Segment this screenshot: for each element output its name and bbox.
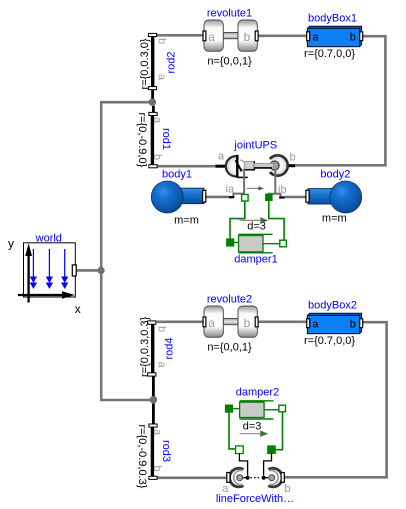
svg-text:r={0.7,0,0}: r={0.7,0,0}: [304, 48, 355, 60]
world gravity arrow 1: [32, 249, 34, 277]
wire jointUPS.bearing to damper1.flange_a (green): [230, 201, 245, 239]
wire jointUPS.frame_ib to body2: [285, 196, 306, 199]
jointUPS stem to frame_ib: [268, 169, 275, 194]
svg-text:y: y: [8, 237, 14, 251]
rod4 fixedTranslation: [139, 316, 175, 396]
world gravity arrow 3: [64, 249, 66, 277]
wire left bus vertical with corners: [101, 102, 151, 400]
wire damper2.flange_a to lineForce.flange_a (green): [229, 412, 236, 449]
damper1: [227, 217, 287, 265]
svg-text:n={0,0,1}: n={0,0,1}: [207, 55, 252, 67]
lineForceWithTwoMasses: [216, 446, 294, 505]
svg-text:r={0,-0.9,0.3}: r={0,-0.9,0.3}: [136, 425, 148, 489]
jointUPS frame_a black stub: [216, 165, 227, 168]
jointUPS frame_ib connector: [279, 196, 284, 198]
jointUPS bearing connector (open green square): [242, 195, 249, 202]
svg-text:r={0,-0.9,0}: r={0,-0.9,0}: [136, 113, 148, 168]
lineForce stem a: [239, 454, 247, 476]
damper2 flange_b: [279, 405, 286, 412]
damper1 cylinder+piston: [234, 242, 239, 244]
svg-text:b: b: [350, 319, 356, 331]
svg-text:b: b: [151, 466, 163, 472]
bodyBox1: [304, 13, 363, 61]
svg-text:rod2: rod2: [166, 51, 178, 73]
jointUPS: [216, 140, 296, 201]
svg-text:a: a: [208, 316, 215, 330]
svg-text:bodyBox2: bodyBox2: [308, 300, 357, 312]
jointUPS stem to frame_ia: [233, 170, 244, 197]
svg-text:b: b: [155, 326, 167, 332]
lineForce connector a: [227, 473, 230, 483]
lineForce dotted rope: [251, 477, 262, 479]
body2: [306, 168, 362, 224]
svg-text:a: a: [151, 429, 163, 436]
damper2 arrow: [240, 433, 260, 435]
svg-text:r={0,0.3,0.3}: r={0,0.3,0.3}: [139, 316, 151, 377]
rod1 fixedTranslation: [136, 106, 172, 168]
svg-text:a: a: [151, 117, 163, 124]
lineForce masses: [246, 476, 250, 480]
svg-text:lineForceWith…: lineForceWith…: [216, 493, 294, 505]
svg-text:m=m: m=m: [174, 215, 199, 227]
world W: [8, 233, 81, 317]
wire revolute1.b to bodyBox1.a: [258, 34, 308, 37]
bodyBox2: [304, 300, 363, 348]
svg-text:a: a: [155, 74, 167, 81]
wire jointUPS.axis to damper1.flange_b (green): [269, 201, 284, 241]
wire rod1.b to jointUPS.a: [157, 165, 218, 168]
revolute1 R: [203, 8, 258, 68]
svg-text:b: b: [155, 38, 167, 44]
world gravity arrow 2: [48, 249, 50, 277]
wire bodyBox2.b to lineForceWithTwoMasses.b: [284, 322, 387, 477]
damper1 arrow: [239, 219, 260, 221]
damper1 flange_a: [227, 239, 234, 246]
svg-text:revolute1: revolute1: [207, 8, 252, 20]
node junction rod3/rod4: [150, 396, 158, 404]
lineForce flange_b (filled green square): [268, 446, 276, 454]
svg-text:m=m: m=m: [322, 212, 347, 224]
svg-text:b: b: [290, 152, 296, 164]
lineForce ring a: [230, 468, 244, 487]
svg-text:jointUPS: jointUPS: [233, 140, 277, 152]
node junction world/bus: [98, 267, 105, 274]
lineForce ring b: [268, 468, 282, 487]
damper2 flange_a: [225, 405, 232, 412]
svg-text:b: b: [151, 154, 163, 160]
jointUPS axis direction arrow: [247, 187, 260, 189]
svg-text:n={0,0,1}: n={0,0,1}: [207, 341, 252, 353]
wire world to left bus: [77, 269, 101, 272]
svg-text:a: a: [312, 32, 319, 44]
wire body1 to jointUPS.frame_ia: [206, 196, 229, 199]
svg-text:b: b: [244, 316, 251, 330]
node junction rod1/rod2: [149, 98, 157, 106]
lineForce connector b: [281, 473, 284, 483]
svg-text:ia: ia: [226, 184, 235, 196]
rod2 fixedTranslation: [139, 33, 178, 98]
world y-axis: [27, 254, 29, 303]
svg-text:a: a: [155, 362, 167, 369]
svg-text:b: b: [244, 30, 251, 44]
svg-text:d=3: d=3: [243, 420, 262, 432]
svg-text:b: b: [350, 32, 356, 44]
svg-text:rod1: rod1: [160, 128, 172, 150]
svg-text:body2: body2: [320, 168, 350, 180]
damper1 flange_b: [280, 240, 287, 247]
jointUPS prismatic box: [244, 161, 254, 169]
svg-text:damper2: damper2: [236, 387, 279, 399]
world frame_b connector: [72, 265, 76, 276]
wire rod2.b to revolute1.a: [157, 34, 204, 37]
rod3 fixedTranslation: [136, 404, 172, 489]
svg-text:r={0.7,0,0}: r={0.7,0,0}: [304, 335, 355, 347]
svg-text:rod3: rod3: [160, 440, 172, 462]
jointUPS left sphere (universal): [226, 156, 246, 176]
wire rod3.b to lineForceWithTwoMasses.a: [158, 476, 228, 479]
damper2: [225, 387, 285, 437]
svg-text:ib: ib: [278, 184, 287, 196]
world box: [24, 243, 76, 297]
svg-text:revolute2: revolute2: [207, 294, 252, 306]
lineForce inner circles: [237, 475, 243, 481]
svg-text:rod4: rod4: [163, 337, 175, 359]
svg-text:body1: body1: [162, 169, 192, 181]
world x-axis: [18, 294, 63, 296]
wire bodyBox1.b to jointUPS.b: [295, 36, 385, 165]
lineForce stem b: [264, 454, 272, 476]
svg-text:a: a: [218, 151, 225, 163]
jointUPS prismatic rod: [254, 163, 274, 168]
svg-text:a: a: [312, 319, 319, 331]
damper2 cylinder+piston: [233, 408, 240, 410]
svg-text:damper1: damper1: [234, 254, 277, 266]
svg-text:r={0,0.3,0}: r={0,0.3,0}: [139, 38, 151, 89]
jointUPS axis connector (filled green square): [266, 194, 273, 201]
jointUPS right sphere (spherical): [267, 155, 287, 175]
svg-text:a: a: [208, 30, 215, 44]
jointUPS frame_b black stub: [285, 164, 295, 167]
lineForce flange_a (open green square): [236, 446, 244, 454]
revolute2 R: [203, 294, 258, 354]
svg-text:bodyBox1: bodyBox1: [308, 13, 357, 25]
body1: [151, 169, 206, 227]
wire damper2.flange_b to lineForce.flange_b (green): [276, 412, 283, 450]
svg-text:x: x: [75, 302, 81, 316]
jointUPS frame_ia connector: [229, 196, 235, 198]
wire revolute2.b to bodyBox2.a: [258, 320, 308, 323]
wire rod4.b to revolute2.a: [157, 320, 204, 323]
